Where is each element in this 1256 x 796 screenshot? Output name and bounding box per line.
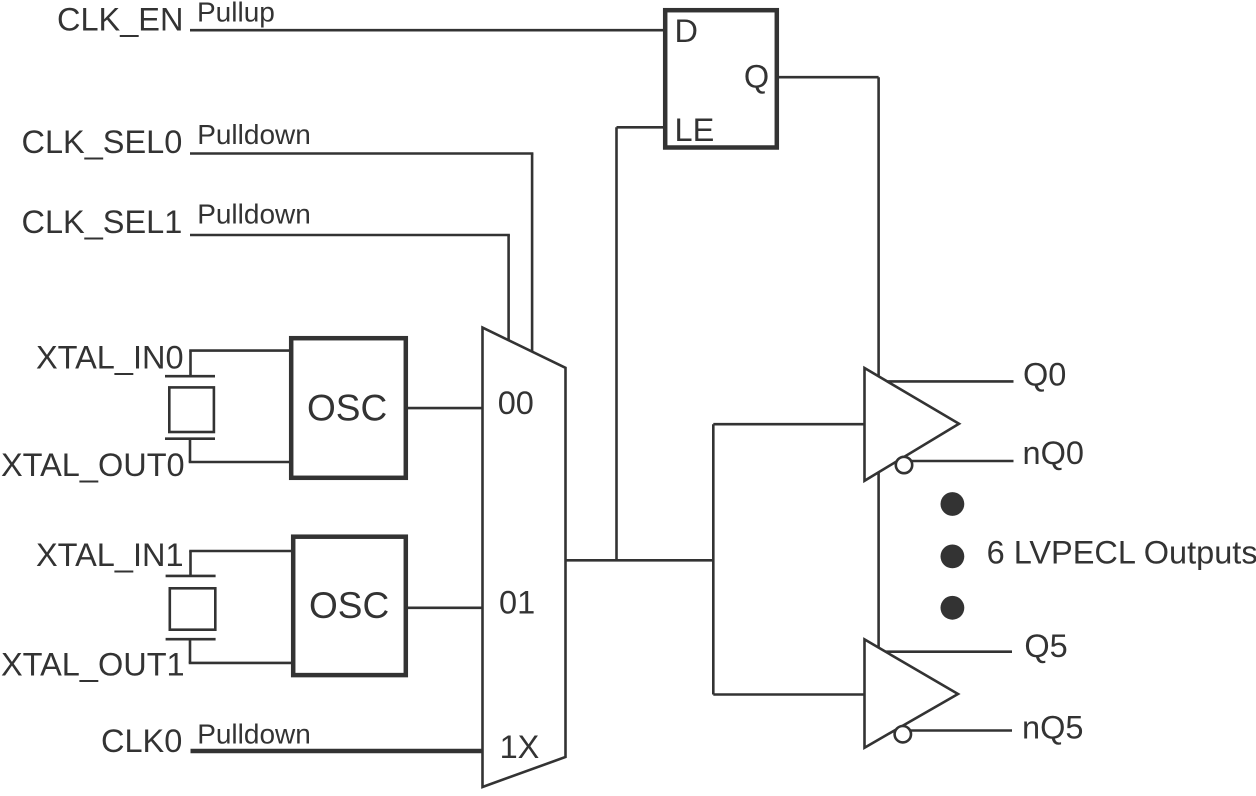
wire to buffer A input bbox=[713, 423, 865, 426]
wire CLK_SEL0 vertical drop to mux bbox=[531, 154, 534, 355]
wire latch LE horizontal bbox=[617, 126, 666, 129]
crystal X2 bottom plate bbox=[166, 638, 216, 641]
wire latch LE vertical down to mux output node bbox=[615, 127, 618, 560]
svg-text:Q0: Q0 bbox=[1023, 357, 1066, 393]
buffer A inversion bubble bbox=[896, 457, 912, 473]
crystal X1 body bbox=[169, 387, 214, 432]
wire crystal X2 stub down to XTAL_OUT1 bbox=[189, 639, 192, 663]
wire CLK_SEL1 vertical drop to mux bbox=[507, 235, 510, 344]
wire OSC U1 output to mux input 00 bbox=[406, 407, 484, 410]
wire CLK0 thick to mux input 1X bbox=[191, 749, 484, 754]
wire mux output horizontal to buffer junction bbox=[564, 559, 713, 562]
buffer A triangle bbox=[865, 368, 960, 481]
crystal X2 body bbox=[170, 588, 216, 629]
svg-text:XTAL_IN0: XTAL_IN0 bbox=[36, 340, 184, 376]
svg-text:CLK_SEL1: CLK_SEL1 bbox=[22, 204, 183, 240]
svg-text:Pulldown: Pulldown bbox=[197, 119, 311, 150]
crystal X1 bottom plate bbox=[165, 437, 215, 440]
ellipsis dot 2 bbox=[941, 545, 965, 569]
svg-text:6 LVPECL Outputs: 6 LVPECL Outputs bbox=[987, 535, 1256, 571]
crystal X1 top plate bbox=[165, 375, 215, 378]
wire XTAL_IN0 horizontal to OSC bbox=[189, 349, 291, 352]
svg-text:D: D bbox=[675, 13, 698, 49]
wire OSC U2 output to mux input 01 bbox=[406, 606, 484, 609]
wire XTAL_IN0 stub down to crystal X1 bbox=[189, 351, 192, 377]
svg-text:OSC: OSC bbox=[309, 585, 389, 626]
wire buffer feed vertical junction bbox=[712, 424, 715, 694]
wire XTAL_IN1 horizontal to OSC bbox=[189, 550, 293, 553]
mux M1 trapezoid bbox=[483, 328, 566, 787]
wire to buffer B input bbox=[713, 693, 865, 696]
wire XTAL_OUT1 horizontal to OSC bbox=[189, 662, 293, 665]
svg-text:nQ0: nQ0 bbox=[1023, 435, 1084, 471]
svg-text:CLK_SEL0: CLK_SEL0 bbox=[22, 124, 183, 160]
svg-text:Q: Q bbox=[744, 58, 769, 94]
wire XTAL_IN1 stub down to crystal X2 bbox=[189, 551, 192, 576]
wire CLK_EN to latch D input bbox=[190, 29, 666, 32]
ellipsis dot 1 bbox=[941, 492, 965, 516]
svg-text:nQ5: nQ5 bbox=[1022, 709, 1083, 745]
svg-text:CLK_EN: CLK_EN bbox=[57, 2, 183, 38]
wire Q0 output bbox=[887, 380, 1013, 383]
latch U3 box bbox=[665, 10, 777, 147]
OSC U2 box bbox=[293, 537, 406, 675]
svg-text:XTAL_OUT0: XTAL_OUT0 bbox=[1, 447, 185, 483]
svg-text:1X: 1X bbox=[500, 729, 540, 765]
wire XTAL_OUT0 horizontal to OSC bbox=[189, 461, 291, 464]
svg-text:Pulldown: Pulldown bbox=[197, 199, 311, 230]
svg-text:XTAL_IN1: XTAL_IN1 bbox=[36, 537, 184, 573]
svg-text:00: 00 bbox=[498, 385, 534, 421]
wire nQ5 output bbox=[905, 729, 1012, 732]
wire crystal X1 stub down to XTAL_OUT0 bbox=[189, 439, 192, 462]
svg-text:Q5: Q5 bbox=[1024, 628, 1067, 664]
wire CLK_SEL1 horizontal bbox=[190, 234, 510, 237]
OSC U1 box bbox=[291, 338, 406, 478]
wire Q5 output bbox=[886, 650, 1012, 653]
crystal X2 top plate bbox=[166, 575, 216, 578]
ellipsis dot 3 bbox=[941, 596, 965, 620]
svg-text:LE: LE bbox=[675, 112, 715, 148]
svg-text:CLK0: CLK0 bbox=[101, 723, 182, 759]
svg-text:01: 01 bbox=[499, 585, 535, 621]
wire nQ0 output bbox=[906, 460, 1014, 463]
buffer B inversion bubble bbox=[895, 726, 911, 742]
buffer B triangle bbox=[865, 639, 959, 747]
wire latch Q output horizontal bbox=[777, 76, 879, 79]
wire latch Q enable vertical down through buffers bbox=[877, 77, 880, 660]
svg-text:Pullup: Pullup bbox=[197, 0, 275, 27]
svg-text:XTAL_OUT1: XTAL_OUT1 bbox=[1, 647, 185, 683]
svg-text:Pulldown: Pulldown bbox=[197, 718, 311, 749]
svg-text:OSC: OSC bbox=[307, 388, 387, 429]
wire CLK_SEL0 horizontal bbox=[190, 152, 533, 155]
